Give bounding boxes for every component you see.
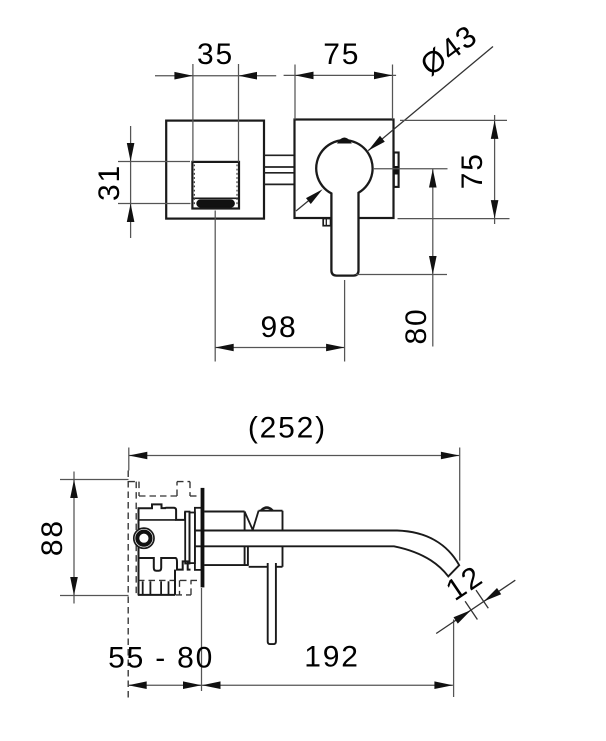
svg-text:75: 75 bbox=[456, 152, 489, 189]
inlet port bbox=[134, 528, 154, 548]
lever side bbox=[268, 563, 276, 644]
svg-text:75: 75 bbox=[323, 38, 360, 71]
dia 43 leader 2 bbox=[296, 189, 323, 211]
connector lines bbox=[264, 155, 295, 184]
svg-text:31: 31 bbox=[93, 164, 126, 201]
wall plate bbox=[201, 488, 204, 587]
bottom tab bbox=[323, 219, 330, 226]
spout outlet square bbox=[192, 162, 239, 209]
valve body shank bbox=[138, 570, 175, 595]
valve body bbox=[139, 504, 191, 595]
svg-text:(252): (252) bbox=[248, 412, 327, 445]
dia 43 leader bbox=[368, 47, 493, 151]
svg-text:192: 192 bbox=[304, 641, 359, 674]
svg-text:88: 88 bbox=[36, 519, 69, 556]
dim 31 bbox=[93, 126, 190, 238]
dim 192 label bbox=[304, 641, 359, 674]
left wall plate bbox=[166, 121, 264, 219]
dim 55-80 bbox=[108, 588, 454, 697]
trim stack bbox=[185, 508, 201, 570]
right handle plate bbox=[295, 120, 394, 219]
handle top tab bbox=[338, 138, 351, 143]
dim 35 bbox=[155, 38, 276, 162]
dim 80 bbox=[356, 169, 448, 347]
dim 88 bbox=[36, 472, 128, 604]
svg-text:98: 98 bbox=[261, 311, 298, 344]
dim 75 right bbox=[398, 115, 510, 224]
handle hub bbox=[245, 508, 283, 567]
handle rosette circle and lever bbox=[316, 140, 372, 275]
spout square knurl bbox=[194, 165, 237, 207]
dim 252 bbox=[129, 412, 460, 561]
svg-text:35: 35 bbox=[197, 38, 234, 71]
dim 75 top bbox=[284, 38, 397, 120]
dim 98 bbox=[215, 211, 344, 362]
svg-text:80: 80 bbox=[400, 308, 433, 345]
svg-text:55 - 80: 55 - 80 bbox=[108, 642, 214, 675]
sleeve bbox=[204, 512, 249, 567]
dim 12 bbox=[436, 559, 515, 633]
spout slot bbox=[197, 200, 235, 207]
spout tube bbox=[195, 531, 459, 577]
right edge clip bbox=[394, 153, 399, 187]
dia 43 label bbox=[415, 19, 484, 83]
rough-in box dashes bbox=[128, 482, 200, 595]
wall face line bbox=[127, 471, 129, 701]
